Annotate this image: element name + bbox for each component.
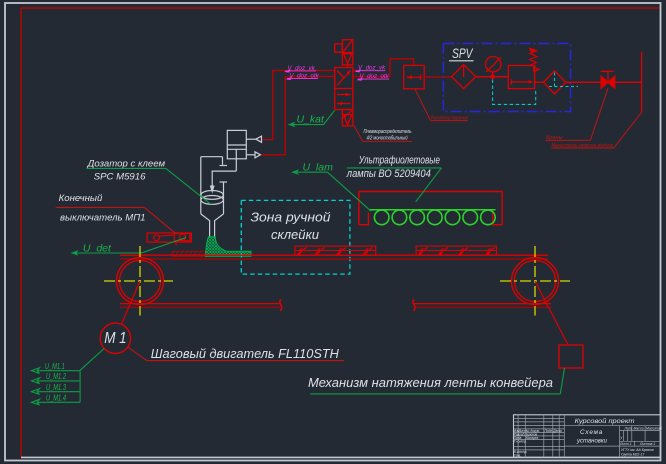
UV lamp unit housing (359, 192, 502, 225)
wire: valve right upper port stub (353, 70, 359, 72)
down arrow into container (210, 186, 215, 194)
shutoff valve (кран) bowtie (601, 52, 642, 112)
svg-text:4/2 моностабильный: 4/2 моностабильный (367, 134, 408, 141)
svg-text:Косарев: Косарев (526, 436, 539, 440)
container tank walls (200, 157, 202, 214)
leader to lamp box (416, 168, 442, 202)
wire lubricator to shutoff valve (566, 81, 601, 83)
svg-text:Зона ручной: Зона ручной (251, 210, 331, 225)
limit switch MP1 (147, 233, 191, 245)
lubricator diamond (544, 71, 566, 94)
glue dispenser assembly (white) (201, 130, 262, 237)
top cell crossed arrows (337, 71, 351, 86)
svg-text:U_M1.2: U_M1.2 (46, 372, 66, 381)
container cone (201, 214, 210, 237)
svg-text:Масштаб: Масштаб (646, 426, 662, 430)
glue level ellipses (201, 191, 223, 200)
svg-text:Курсовой проект: Курсовой проект (575, 417, 635, 425)
valve solenoid box top-left (335, 44, 343, 52)
svg-text:склейки: склейки (271, 227, 319, 242)
conveyor belt top run double line (120, 254, 548, 256)
glued piece red hatch on belt (173, 251, 208, 256)
leader U_lam to lamp unit (328, 172, 372, 211)
piston rod (235, 149, 237, 171)
belt break S-mark left (280, 300, 282, 311)
valve bottom spring triangle (342, 110, 353, 126)
motor M1 circle (100, 323, 130, 353)
wire M1 to connector bundle (80, 349, 104, 371)
port triangle top (256, 136, 262, 142)
left section rows (514, 417, 565, 419)
dispenser air cylinder box (227, 130, 246, 158)
svg-text:выключатель МП1: выключатель МП1 (60, 213, 146, 224)
glue marks piece 2 (418, 248, 496, 256)
svg-text:у: у (620, 436, 623, 440)
lamp coils: 7 circles (374, 210, 495, 225)
op valve: pneumatic distributor 4/2 body (335, 40, 353, 126)
left section columns (517, 415, 519, 458)
leader M1 to label (128, 347, 147, 361)
workpiece 1 on belt (295, 246, 376, 255)
belt bottom run left segment (120, 303, 280, 305)
svg-text:Механизм натяжения ленты конве: Механизм натяжения ленты конвейера (308, 375, 553, 390)
svg-text:Т.контр.: Т.контр. (514, 439, 527, 443)
leader: Магистраль (614, 112, 642, 148)
wire valve to main (615, 81, 642, 83)
svg-text:Ультрафиолетовые: Ультрафиолетовые (358, 154, 440, 166)
svg-text:SPC М5916: SPC М5916 (94, 172, 146, 183)
wire: regulator to SPV filter (424, 76, 452, 78)
svg-text:лампы ВО 5209404: лампы ВО 5209404 (346, 168, 431, 180)
regulator spring zigzag (529, 51, 538, 66)
cyan pilot dashed line under regulator (493, 80, 536, 105)
manual gluing zone dashed box (241, 200, 350, 274)
leader to regulator label (415, 89, 430, 120)
svg-text:U_M1.3: U_M1.3 (46, 383, 66, 392)
inner red frame left line (20, 8, 22, 457)
svg-text:М 1: М 1 (104, 330, 127, 347)
pipe to container (212, 171, 236, 187)
svg-text:Утв.: Утв. (514, 453, 521, 457)
pressure gauge PI (492, 72, 494, 77)
leader tensioner to label (560, 368, 564, 394)
wire: valve left lower port to riser (260, 77, 334, 155)
inner frame bottom white line (21, 456, 661, 458)
leader to switch (144, 207, 175, 233)
svg-text:УГТУ им. АА Брюхов: УГТУ им. АА Брюхов (621, 448, 654, 452)
glue flow green hatch (206, 237, 252, 256)
relief triangle (534, 67, 539, 71)
wire regulator to lubricator (535, 81, 544, 83)
svg-text:U_lam: U_lam (303, 161, 334, 173)
svg-text:U_kat: U_kat (297, 114, 326, 126)
svg-text:Пневмораспределитель: Пневмораспределитель (364, 129, 412, 135)
svg-text:Подп.: Подп. (545, 429, 554, 433)
svg-text:Листов 1: Листов 1 (639, 442, 655, 446)
wire: U_kat leader to valve (324, 110, 335, 124)
svg-text:Группа М22-17: Группа М22-17 (621, 452, 644, 456)
filter F1 diamond (452, 65, 476, 89)
svg-text:U_M1.1: U_M1.1 (45, 362, 65, 371)
bottom cell straight arrows (337, 94, 351, 96)
belt bottom run right segment (414, 303, 551, 305)
svg-text:SPV: SPV (452, 46, 474, 61)
svg-text:Шаговый двигатель FL110STH: Шаговый двигатель FL110STH (151, 346, 340, 361)
leader: Краны (590, 88, 608, 140)
left roller drum (117, 258, 164, 305)
valve pilot box with diagonal (342, 40, 353, 53)
svg-text:установки: установки (576, 438, 607, 445)
right roller centerlines yellow (500, 280, 570, 282)
wire: valve left upper port to riser (262, 71, 335, 140)
labels U_M1.x (45, 362, 67, 403)
port line bottom (246, 154, 255, 156)
svg-text:Конечный: Конечный (59, 193, 103, 204)
port triangle bottom (255, 152, 260, 158)
title block (514, 415, 661, 458)
wire: valve right lower port to regulator loop (353, 59, 414, 77)
valve top spring triangle (342, 53, 353, 65)
svg-text:Лист 1: Лист 1 (619, 442, 632, 446)
leader to dispenser (166, 168, 211, 204)
label: V_doz_vkl left (284, 65, 390, 81)
svg-text:Схема: Схема (580, 429, 603, 436)
workpiece 2 on belt (416, 246, 496, 255)
right roller drum (512, 258, 559, 305)
leader U_det to switch (141, 238, 186, 254)
port line top (246, 138, 256, 140)
SPV regulator box (508, 66, 534, 89)
belt break S-mark right (413, 300, 415, 311)
SPV air-prep unit dash-dot box (443, 44, 570, 112)
svg-text:Дата: Дата (552, 429, 562, 433)
right section grid (631, 426, 633, 442)
glue marks piece 1 (297, 248, 373, 256)
lamp rail green (370, 209, 496, 211)
main dividers (564, 425, 660, 427)
cyan drip line in lubricator (554, 73, 556, 87)
compressed air main vertical (641, 52, 643, 112)
svg-text:Масса: Масса (634, 426, 644, 430)
leader: pneumodistributor label (354, 126, 362, 141)
belt tensioner square (559, 345, 583, 368)
wire filter to regulator (476, 76, 509, 78)
leader roller to tensioner (535, 281, 568, 345)
svg-text:U_M1.4: U_M1.4 (46, 394, 66, 403)
leader roller to M1 (121, 281, 140, 324)
junction node (491, 75, 494, 78)
pressure regulator (Регулятор давления) box (404, 65, 425, 88)
wire U_M1.1 (32, 368, 81, 405)
svg-text:Лит.: Лит. (624, 426, 633, 430)
inner red frame top line (21, 7, 659, 9)
left roller centerlines yellow (104, 280, 173, 282)
